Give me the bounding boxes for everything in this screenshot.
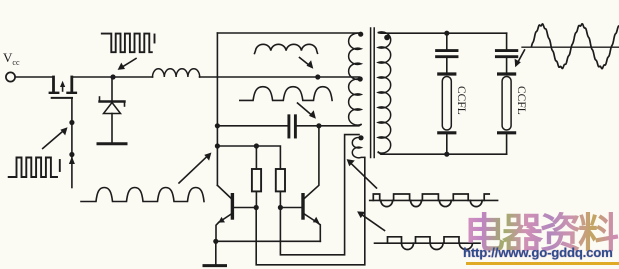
svg-text:CCFL: CCFL <box>515 86 527 115</box>
node lamp1 bottom junction <box>444 152 449 157</box>
arrow from waveform 2 to feedback winding bottom <box>357 211 384 230</box>
node secondary phase dot <box>384 35 390 41</box>
node gate upper junction <box>69 120 74 125</box>
arrow from top PWM to node A <box>118 59 136 70</box>
svg-text:CCFL: CCFL <box>455 86 467 115</box>
waveform bottom PWM trailing mark <box>59 160 61 171</box>
waveform collector voltage 1 axis <box>370 199 498 201</box>
node left rail resistor junction <box>215 143 220 148</box>
node primary top terminal <box>358 32 363 37</box>
capacitor C3 ballast right <box>496 33 516 72</box>
waveform output sine axis <box>522 46 619 48</box>
node A drain node <box>110 74 115 79</box>
waveform PWM square wave (bottom left) <box>9 158 57 178</box>
transformer core lines <box>371 28 375 158</box>
wire secondary bottom rail <box>378 152 506 154</box>
wire inductor to transformer center tap <box>200 77 362 79</box>
capacitor C2 ballast left <box>437 33 457 72</box>
arrow from sine to lamp circuit <box>515 50 525 67</box>
waveform PWM square wave (top) <box>102 34 152 53</box>
arrow from center half-sine to C1 node <box>298 103 316 119</box>
transistor Q3 NPN right <box>280 126 320 242</box>
wire Q3 base to feedback winding top <box>280 135 359 255</box>
waveform collector voltage 2 axis <box>375 242 481 244</box>
wire resistor top rail <box>217 146 280 169</box>
transistor Q2 NPN left <box>216 185 256 241</box>
transformer T1 feedback winding <box>352 137 365 157</box>
watermark big characters <box>464 212 619 255</box>
arrow from waveform 1 to feedback winding <box>347 159 377 188</box>
wire R2 bottom lead <box>279 191 281 207</box>
wire R1 bottom lead <box>255 191 257 207</box>
lamp CCFL left <box>439 74 455 154</box>
node feedback winding top terminal <box>358 135 363 140</box>
capacitor C1 <box>289 116 296 137</box>
diode D1 zener <box>100 77 125 143</box>
arrow from bottom PWM to gate node <box>43 127 68 148</box>
wire MOSFET drain to node A <box>72 76 153 78</box>
arrowhead on gate drive line pointing up <box>69 157 75 165</box>
arrow from bottom half-sine to left rail node <box>179 153 211 184</box>
waveform half-sine (center) <box>240 87 332 101</box>
wire top rail horizontal <box>217 32 361 34</box>
node center-tap feed junction <box>315 74 320 79</box>
waveform PWM square wave top trailing mark <box>154 35 156 43</box>
inductor L1 <box>153 69 200 77</box>
node C1 right junction <box>316 123 321 128</box>
watermark url text <box>463 245 613 260</box>
transformer T1 primary bottom section <box>349 79 361 125</box>
waveform inductor ripple current <box>255 44 318 53</box>
node Q3 base junction <box>278 205 283 210</box>
wire left rail vertical <box>216 33 218 185</box>
wire Q2 base to feedback winding bottom <box>256 158 365 265</box>
node gate lower junction <box>69 152 74 157</box>
waveform collector voltage 2 <box>388 237 473 250</box>
lamp CCFL right <box>499 74 515 154</box>
wire emitter bus <box>216 240 320 242</box>
arrow from ripple waveform to center-tap wire <box>300 58 314 69</box>
transistor Q1 P-MOSFET <box>50 77 76 98</box>
waveform output sine <box>532 24 619 69</box>
ground for zener <box>98 142 126 145</box>
transformer T1 secondary winding <box>378 32 390 153</box>
node lamp1 capacitor top junction <box>444 31 449 36</box>
wire capacitor row right <box>297 125 362 126</box>
wire capacitor row left <box>217 125 287 127</box>
watermark underline <box>466 262 619 265</box>
waveform half-sine (bottom left) <box>81 188 204 202</box>
resistor R1 <box>252 169 261 191</box>
node Q2 base junction <box>254 205 259 210</box>
wire R1 top lead <box>255 146 257 169</box>
Vcc input terminal <box>6 72 15 81</box>
resistor R2 <box>276 169 285 191</box>
waveform collector voltage 1 <box>373 194 489 207</box>
wire ground lead <box>215 241 217 264</box>
svg-text:Vcc: Vcc <box>3 50 20 67</box>
node left rail capacitor junction <box>215 123 220 128</box>
node emitter ground junction <box>213 239 218 244</box>
node primary center tap <box>358 76 363 81</box>
wire MOSFET gate line <box>71 98 73 188</box>
transformer T1 primary top section <box>349 33 361 79</box>
wire Vcc to MOSFET source <box>15 76 53 78</box>
ground main <box>204 264 226 267</box>
wire secondary top rail <box>379 32 507 34</box>
node resistor R1 top junction <box>254 143 259 148</box>
